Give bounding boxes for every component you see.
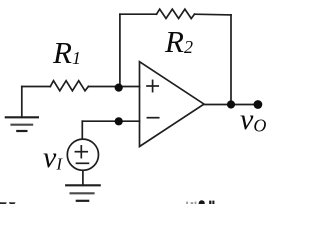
- label vI: [43, 141, 62, 175]
- wire R1 right to op-amp + input: [88, 86, 139, 88]
- caption fragment bottom left letter tops: [0, 202, 16, 204]
- wire R1 left stub to ground corner: [22, 86, 51, 88]
- node junction output feedback: [227, 100, 235, 108]
- wire feedback top horizontal left stub: [120, 13, 157, 15]
- wire vI vertical up: [81, 121, 83, 139]
- wire op-amp minus input: [82, 120, 139, 122]
- node terminal vO: [254, 100, 263, 109]
- wire op-amp output: [204, 104, 258, 106]
- resistor R1: [50, 81, 88, 91]
- op-amp U1: [140, 62, 205, 147]
- label vO: [240, 103, 266, 137]
- wire vI bottom stub: [82, 170, 84, 185]
- wire feedback top horizontal right stub: [195, 13, 232, 16]
- label R2: [165, 24, 193, 60]
- label R1: [53, 35, 81, 71]
- caption fragment bottom right "(a) 2 U" tops: [186, 200, 214, 204]
- node junction minus input: [115, 117, 123, 125]
- node junction plus input: [115, 84, 123, 92]
- voltage source vI: [67, 139, 98, 170]
- resistor R2: [157, 9, 195, 18]
- ground under vI: [66, 185, 100, 201]
- ground left: [6, 87, 38, 132]
- wire feedback right vertical: [230, 15, 232, 105]
- wire feedback top left vertical: [119, 14, 121, 87]
